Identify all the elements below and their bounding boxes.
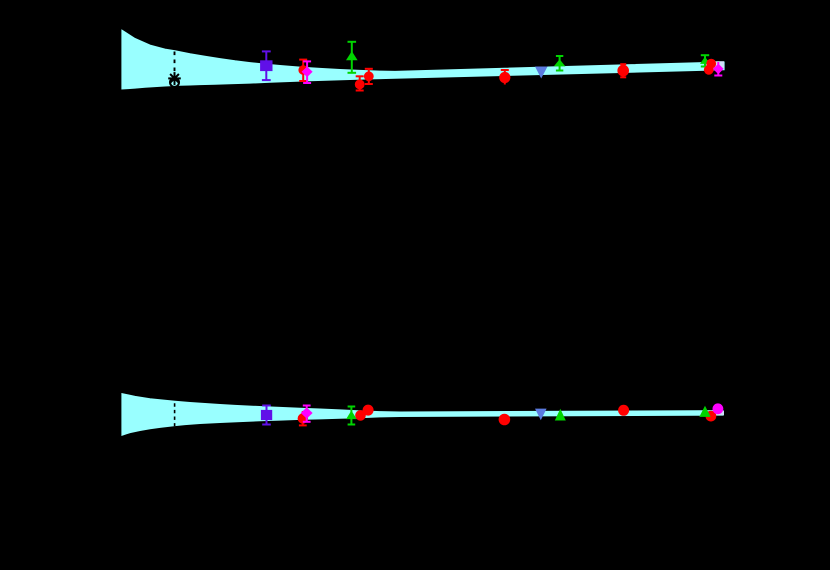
dashed vertical line (top panel)	[174, 52, 176, 86]
data point: red circle at x=711 (bottom panel)	[706, 411, 717, 422]
data point: red circle at x=623 (top panel)	[617, 65, 629, 77]
data point: red circle at x=504 (bottom panel)	[499, 414, 511, 426]
error bar: red circle at x=369 (top panel)	[365, 69, 373, 84]
error bar: red circle at x=711 (top panel)	[707, 60, 714, 62]
data point: green up-triangle at x=560 (top panel)	[554, 59, 566, 66]
data point: magenta diamond (bottom panel)	[301, 407, 313, 418]
error bar: green triangle at x=560 (top panel)	[556, 56, 563, 71]
data point: blue-violet square (top panel)	[260, 60, 272, 71]
cyan uncertainty band with central curve (bottom panel)	[122, 394, 723, 436]
pale patch at right end of top band	[715, 61, 725, 68]
data point: red circle at x=624 (bottom panel)	[618, 405, 629, 416]
data point: red circle at x=303 (top panel)	[298, 65, 308, 75]
data point: red circle at x=360 (bottom panel)	[355, 410, 366, 421]
error bar: green triangle at x=351 (bottom panel)	[348, 407, 356, 425]
error bar: red circle point at x=303 (top panel)	[299, 60, 307, 81]
error bar: green triangle at x=705 (top panel)	[701, 55, 709, 66]
error bar: red circle at x=303 (bottom panel)	[299, 411, 307, 425]
black asterisk marker (top panel)	[168, 72, 181, 87]
error bar: green triangle point at x=352 (top panel)	[348, 42, 357, 73]
data point: red circle at x=369 (top panel)	[364, 71, 374, 81]
error bar: magenta diamond (bottom panel)	[303, 406, 311, 422]
error bar: magenta diamond point (top panel)	[303, 61, 311, 83]
data point: green up-triangle at x=705 (bottom panel)	[699, 406, 710, 417]
data point: red circle at x=368 (bottom panel)	[363, 405, 374, 416]
data point: red circle at x=303 (bottom panel)	[298, 413, 308, 423]
cyan uncertainty band with central curve (top panel)	[122, 30, 724, 89]
data point: green up-triangle at x=705 (top panel)	[700, 57, 710, 64]
data point: red circle at x=709 (top panel)	[704, 65, 714, 75]
error bar: red circle at x=623 (top panel)	[620, 64, 626, 77]
data point: red circle at x=505 (top panel)	[499, 72, 510, 83]
data point: magenta circle at x=718 (bottom panel)	[713, 403, 724, 414]
data point: red circle at x=711 (top panel)	[706, 59, 716, 69]
data point: green up-triangle at x=351 (bottom panel)	[346, 411, 357, 420]
data point: blue-violet square (bottom panel)	[261, 410, 272, 420]
data point: slate-blue down-triangle (bottom panel)	[535, 409, 547, 421]
error bar: red circle at x=505 (top panel)	[501, 70, 509, 85]
data point: magenta diamond at x=718 (top panel)	[713, 64, 724, 75]
data point: green up-triangle at x=352 (top panel)	[346, 51, 358, 60]
data point: magenta diamond (top panel)	[302, 67, 313, 78]
error bar: blue-violet square point (top panel)	[262, 51, 271, 80]
dashed vertical line (bottom panel)	[174, 403, 176, 426]
pale patch at right end of bottom band	[716, 411, 724, 415]
data point: red circle at x=360 (top panel)	[355, 80, 365, 90]
error bar: red circle at x=360 (top panel)	[356, 76, 364, 90]
error bar: blue-violet square (bottom panel)	[262, 406, 271, 425]
data point: slate-blue down-triangle (top panel)	[535, 67, 548, 79]
data point: green up-triangle at x=560 (bottom panel)	[555, 409, 566, 421]
error bar: magenta diamond at x=718 (top panel)	[714, 62, 722, 76]
